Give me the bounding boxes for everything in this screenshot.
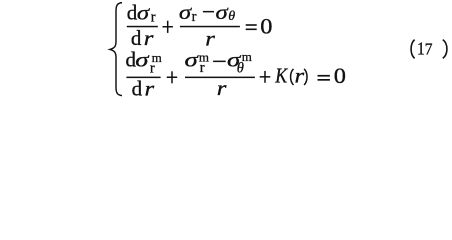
svg-text:θ: θ — [228, 9, 235, 24]
svg-text:r: r — [200, 60, 205, 76]
svg-text:7: 7 — [425, 39, 433, 59]
svg-text:σ: σ — [135, 49, 149, 72]
svg-text:σ: σ — [137, 1, 151, 24]
svg-text:r: r — [145, 77, 155, 98]
svg-text:0: 0 — [334, 64, 346, 88]
svg-text:r: r — [151, 9, 156, 25]
svg-text:r: r — [144, 27, 154, 50]
svg-text:r: r — [150, 60, 155, 76]
svg-text:d: d — [132, 77, 143, 98]
svg-text:r: r — [192, 9, 197, 25]
svg-text:θ: θ — [237, 61, 244, 77]
svg-text:d: d — [131, 26, 142, 50]
svg-text:0: 0 — [260, 15, 272, 39]
svg-text:K: K — [274, 65, 288, 88]
svg-text:σ: σ — [185, 49, 199, 72]
svg-text:r: r — [217, 77, 227, 98]
svg-text:r: r — [295, 64, 305, 87]
svg-text:1: 1 — [417, 39, 425, 59]
svg-text:r: r — [205, 27, 215, 50]
